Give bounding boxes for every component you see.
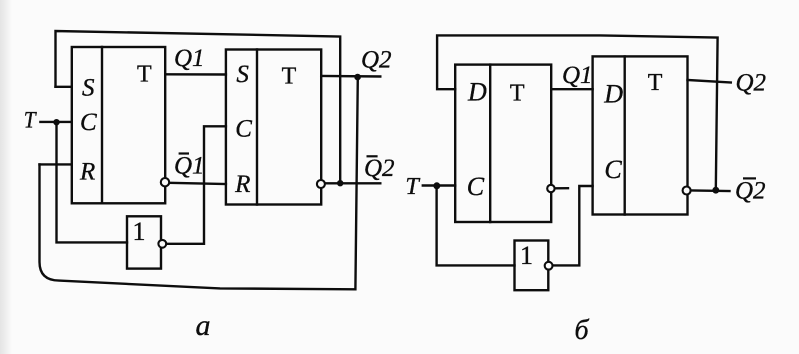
svg-text:T: T <box>24 108 38 133</box>
flip-flop DD1 divider <box>101 47 103 203</box>
wire T input to C of DD4 <box>423 184 455 186</box>
flip-flop DD5 box <box>593 56 688 214</box>
svg-text:Q2: Q2 <box>735 178 766 205</box>
svg-text:S: S <box>236 61 249 88</box>
inversion bubble Q1bar of DD1 <box>161 178 169 186</box>
wire R input of DD1 <box>40 163 72 165</box>
svg-text:1: 1 <box>133 217 146 246</box>
svg-text:T: T <box>282 64 297 90</box>
wire Q2bar output <box>325 182 380 184</box>
wire Q1bar to R of DD2 <box>170 183 226 184</box>
inversion bubble of inverter DD3 <box>158 240 166 248</box>
wire T input to C of DD1 <box>40 121 71 123</box>
overbar of Q2bar circuit a <box>367 155 378 157</box>
svg-text:C: C <box>80 109 97 136</box>
svg-text:а: а <box>196 309 211 342</box>
inversion bubble Q2bar of DD5 <box>683 187 691 195</box>
svg-text:D: D <box>467 77 487 106</box>
svg-text:б: б <box>575 315 590 346</box>
wire feedback Q2bar to D: top run <box>437 35 717 190</box>
svg-text:R: R <box>79 158 95 185</box>
flip-flop DD4 divider <box>489 65 491 222</box>
svg-text:Q2: Q2 <box>361 47 392 74</box>
overbar of Q2bar circuit b <box>743 177 756 179</box>
junction T node circuit a <box>53 119 59 125</box>
inverter DD3 box <box>127 216 161 268</box>
inversion bubble of inverter DD6 <box>545 262 553 270</box>
wire feedback Q2 to R: bottom run <box>40 77 358 289</box>
junction Q2bar node circuit b <box>712 187 719 194</box>
wire Q1 to D of DD5 <box>551 88 592 90</box>
svg-text:T: T <box>405 174 420 200</box>
flip-flop DD2 box <box>226 50 321 205</box>
svg-text:C: C <box>467 172 485 201</box>
wire feedback Q2bar to S: top run <box>56 31 341 183</box>
svg-text:C: C <box>235 115 252 142</box>
junction Q2bar node circuit a <box>337 180 343 186</box>
flip-flop DD4 box <box>455 65 551 222</box>
junction T node circuit b <box>433 182 440 189</box>
wire inverter output up to C of DD5 <box>553 186 593 265</box>
svg-text:Q1: Q1 <box>174 153 205 180</box>
wire inverter output up to C of DD2 <box>167 126 226 244</box>
wire Q1bar stub <box>555 187 568 190</box>
wire T down to inverter input <box>437 186 515 266</box>
junction Q2 node circuit a <box>354 74 361 81</box>
wire Q2bar output <box>691 189 730 192</box>
svg-text:Q2: Q2 <box>364 155 395 182</box>
wire S input of DD1 <box>56 86 72 88</box>
svg-text:Q2: Q2 <box>736 69 767 96</box>
flip-flop DD2 divider <box>256 50 258 205</box>
wire Q2 output <box>321 75 380 78</box>
svg-text:Q1: Q1 <box>562 62 593 89</box>
svg-text:Q1: Q1 <box>174 45 205 72</box>
svg-text:T: T <box>510 80 525 106</box>
svg-text:D: D <box>603 80 623 109</box>
inversion bubble Q2bar of DD2 <box>317 180 325 188</box>
wire T down to inverter input <box>57 122 128 242</box>
inverter DD6 box <box>515 241 549 291</box>
svg-text:1: 1 <box>520 241 533 270</box>
svg-text:C: C <box>604 155 622 184</box>
svg-text:R: R <box>234 171 250 198</box>
svg-text:T: T <box>648 70 663 96</box>
overbar of Q1bar <box>179 152 189 154</box>
inversion bubble Q1bar of DD4 <box>547 185 554 192</box>
flip-flop DD5 divider <box>624 56 626 214</box>
svg-text:S: S <box>82 74 95 101</box>
wire Q1 to S of DD2 <box>165 73 226 76</box>
wire Q2 output <box>688 80 731 83</box>
flip-flop DD1 box <box>72 47 165 203</box>
svg-text:T: T <box>137 62 152 88</box>
